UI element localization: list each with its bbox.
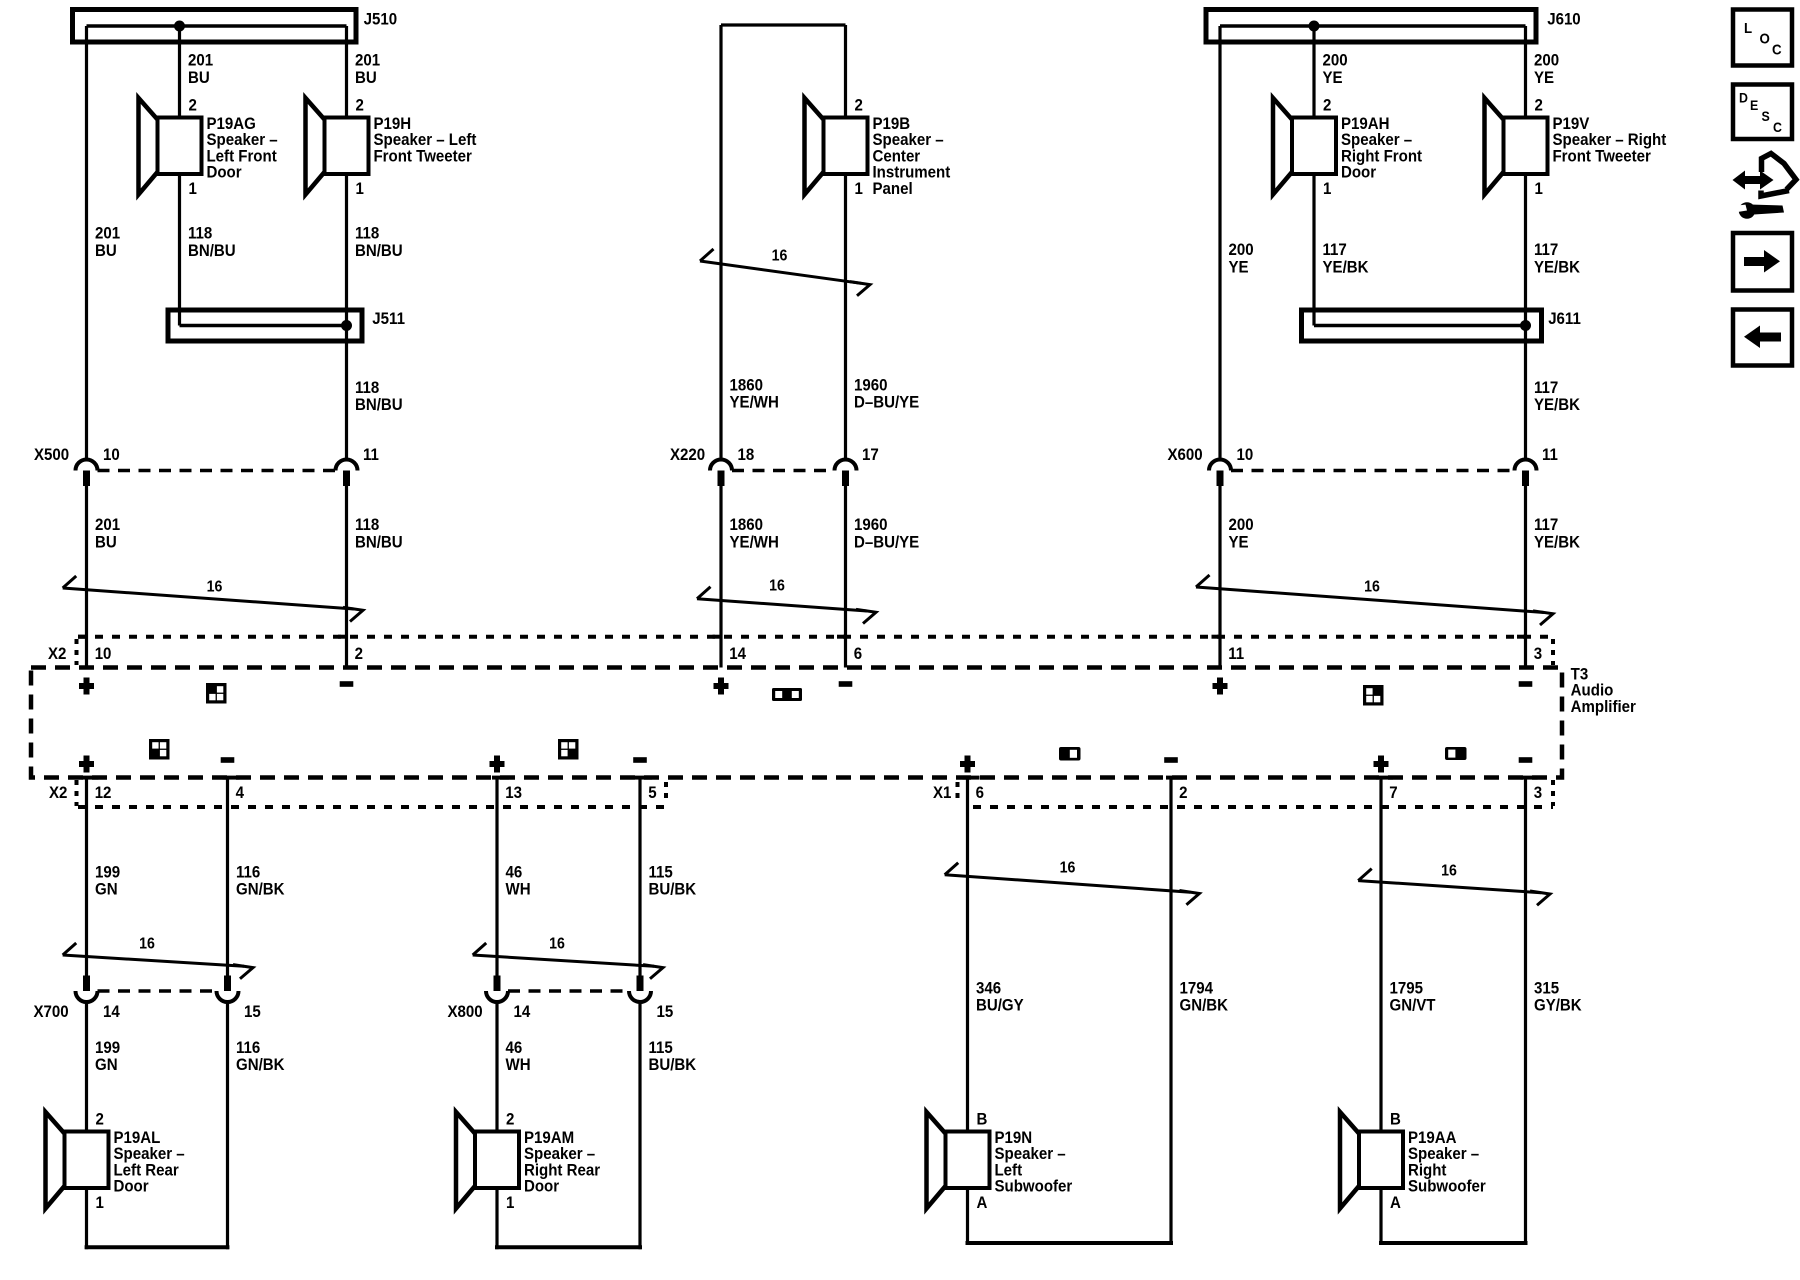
wire 115 BU/BK (amp X2 pin 5 to X800 pin 15)	[638, 778, 641, 976]
plus sign amp bottom pin 7	[1374, 756, 1389, 773]
svg-text:YE/WH: YE/WH	[730, 393, 779, 412]
speaker P19H symbol	[306, 98, 369, 195]
svg-text:B: B	[976, 1110, 987, 1129]
wire 116 GN/BK (amp X2 pin 4 to X700 pin 15)	[226, 778, 229, 976]
amp X2 pin 13 entry tick	[492, 776, 509, 780]
label X800 pin 14	[514, 1002, 531, 1021]
wire 200 YE (X600 pin 10 to amp X2 pin 11)	[1218, 485, 1221, 668]
svg-text:315: 315	[1534, 979, 1559, 998]
label amp X1 pin 2	[1179, 783, 1187, 802]
label amp X2 pin 10	[95, 644, 112, 663]
svg-text:GN/BK: GN/BK	[236, 880, 285, 899]
label wire value 200 YE right feed	[1228, 240, 1253, 276]
svg-text:2: 2	[1323, 96, 1331, 115]
svg-text:11: 11	[363, 445, 379, 464]
svg-text:1: 1	[95, 1193, 103, 1212]
svg-text:Subwoofer: Subwoofer	[1408, 1177, 1486, 1196]
label P19AL name	[113, 1128, 184, 1196]
gauge marker left rear pair	[63, 943, 253, 979]
svg-text:16: 16	[549, 935, 565, 953]
svg-text:18: 18	[737, 445, 754, 464]
svg-text:D–BU/YE: D–BU/YE	[854, 393, 920, 412]
pin B label of P19AA	[1390, 1110, 1401, 1129]
svg-text:201: 201	[188, 51, 213, 70]
wire 117 YE/BK (P19V pin 1 through J611 to X600 pin 11)	[1524, 174, 1527, 461]
wire 346 BU/GY (amp X1 pin 6 to P19N pin B)	[966, 778, 969, 1132]
wire J611 bus	[1314, 324, 1526, 328]
amp X2 pin 10 entry tick	[78, 635, 87, 639]
gauge marker center pair lower	[697, 587, 876, 624]
label X500 pin 11	[363, 445, 379, 464]
label P19B name	[872, 114, 950, 198]
svg-text:BN/BU: BN/BU	[355, 533, 403, 552]
label amp X2 pin 6	[854, 644, 862, 663]
svg-text:117: 117	[1534, 515, 1558, 534]
label amp X2 pin 13	[505, 783, 522, 802]
connector X600 pin 10 terminal	[1209, 460, 1231, 487]
connector X1 right separator	[1551, 780, 1555, 806]
label 16 gauge right rear pair	[549, 935, 565, 953]
svg-text:118: 118	[355, 224, 379, 243]
pin 1 label of P19AM	[506, 1193, 514, 1212]
svg-text:15: 15	[657, 1002, 674, 1021]
connector X1 left separator	[956, 782, 960, 804]
speaker P19AG symbol	[139, 98, 202, 195]
pin 2 label of P19AL	[95, 1110, 103, 1129]
plus sign amp bottom pin 13	[490, 756, 505, 773]
label P19H name	[373, 114, 477, 165]
label X800	[447, 1002, 482, 1021]
svg-text:A: A	[976, 1193, 987, 1212]
svg-text:O: O	[1760, 31, 1770, 48]
svg-text:115: 115	[648, 863, 672, 882]
svg-text:1795: 1795	[1389, 979, 1423, 998]
svg-text:15: 15	[244, 1002, 261, 1021]
label X600	[1168, 445, 1203, 464]
gauge marker center pair upper	[700, 249, 870, 296]
plus sign amp top pin 10	[79, 678, 94, 695]
label wire value 116 GN/BK below amp	[236, 863, 285, 899]
label 16 gauge front left pair	[207, 578, 223, 596]
label wire value 46 WH at speaker	[505, 1038, 530, 1074]
svg-text:3: 3	[1534, 783, 1542, 802]
svg-text:4: 4	[236, 783, 244, 802]
svg-text:BU/BK: BU/BK	[648, 1055, 696, 1074]
minus sign amp bottom pin 3	[1519, 757, 1533, 763]
svg-text:YE: YE	[1534, 68, 1554, 87]
wire 1860 YE/WH (X220 pin 18 to amp X2 pin 14)	[719, 485, 722, 668]
svg-text:116: 116	[236, 863, 260, 882]
wire P19AM pin 1 return	[495, 1188, 642, 1249]
svg-text:201: 201	[355, 51, 380, 70]
svg-text:WH: WH	[505, 880, 530, 899]
svg-text:1: 1	[506, 1193, 514, 1212]
svg-text:12: 12	[95, 783, 112, 802]
svg-text:13: 13	[505, 783, 522, 802]
label X220 pin 17	[862, 445, 879, 464]
connector X220 pin 18 terminal	[710, 460, 732, 487]
svg-text:BN/BU: BN/BU	[355, 395, 403, 414]
connector X700 pin 15 terminal	[217, 976, 239, 1003]
label X220	[670, 445, 705, 464]
label wire value 1860 YE/WH above X220	[730, 376, 779, 412]
pin 2 label of P19B	[854, 96, 862, 115]
svg-text:46: 46	[505, 1038, 522, 1057]
svg-text:16: 16	[1060, 859, 1076, 877]
svg-text:1: 1	[188, 179, 196, 198]
label amp X1 pin 3	[1534, 783, 1542, 802]
svg-text:46: 46	[505, 863, 522, 882]
svg-text:BU/GY: BU/GY	[976, 996, 1024, 1015]
label wire value 200 YE at P19AH branch	[1323, 51, 1348, 87]
svg-text:16: 16	[139, 935, 155, 953]
svg-text:S: S	[1761, 108, 1769, 124]
wire J610 bus	[1220, 24, 1526, 28]
svg-text:115: 115	[648, 1038, 672, 1057]
plus sign amp top pin 11	[1213, 678, 1228, 695]
svg-text:D: D	[1739, 90, 1748, 106]
label wire value 117 YE/BK above amp	[1534, 515, 1580, 551]
wire 46 WH (amp X2 pin 13 to X800 pin 14)	[495, 778, 498, 976]
minus sign amp top pin 2	[340, 681, 354, 687]
amp X2 pin 5 entry tick	[635, 776, 652, 780]
amp X2 pin 11 entry tick	[1212, 635, 1221, 639]
label J611	[1548, 309, 1581, 328]
label wire value 201 BU left feed	[95, 224, 120, 260]
pin A label of P19AA	[1390, 1193, 1401, 1212]
svg-text:Front Tweeter: Front Tweeter	[1553, 147, 1651, 166]
wire 118 BN/BU (P19H pin 1 through J511 to X500 pin 11)	[345, 174, 348, 461]
svg-text:X1: X1	[933, 783, 951, 802]
svg-text:YE: YE	[1323, 68, 1343, 87]
svg-text:WH: WH	[505, 1055, 530, 1074]
label wire value 199 GN below amp	[95, 863, 120, 899]
svg-text:117: 117	[1534, 378, 1558, 397]
amplifier T3 body outline	[31, 668, 1562, 778]
connector X2 top strip right separator	[1551, 639, 1555, 665]
svg-text:2: 2	[356, 96, 364, 115]
wire P19AA pin A return	[1379, 1188, 1528, 1245]
amp X2 pin 6 entry tick	[837, 635, 846, 639]
label wire value 117 YE/BK above X600	[1534, 378, 1580, 414]
wire J510 bus	[87, 24, 347, 28]
svg-text:2: 2	[355, 644, 363, 663]
svg-text:346: 346	[976, 979, 1001, 998]
svg-text:1: 1	[1323, 179, 1331, 198]
wire 46 WH (X800 pin 14 to P19AM pin 2)	[495, 1002, 498, 1132]
svg-text:3: 3	[1534, 644, 1542, 663]
amp X1 pin 3 entry tick	[1521, 776, 1538, 780]
connector X800 pin 14 terminal	[486, 976, 508, 1003]
icon left front speaker position	[206, 683, 227, 704]
connector X2 top strip left separator	[75, 639, 79, 665]
connector X2/X1 bottom strip dotted edge X2 part	[78, 805, 666, 809]
pin 2 label of P19H	[356, 96, 364, 115]
junction dot on J610 bus	[1309, 21, 1320, 32]
svg-text:6: 6	[976, 783, 984, 802]
svg-text:BU: BU	[188, 68, 210, 87]
label amp X1 pin 6	[976, 783, 984, 802]
minus sign amp top pin 3	[1519, 681, 1533, 687]
svg-text:2: 2	[506, 1110, 514, 1129]
minus sign amp bottom pin 5	[633, 757, 647, 763]
amp X2 pin 14 entry tick	[713, 635, 722, 639]
icon LOC box	[1733, 10, 1792, 66]
label X600 pin 11	[1542, 445, 1558, 464]
speaker P19AL symbol	[46, 1112, 109, 1209]
label X2 top	[48, 644, 66, 663]
svg-text:YE: YE	[1228, 258, 1248, 277]
label wire value 201 BU at P19AG branch	[188, 51, 213, 87]
svg-text:YE/WH: YE/WH	[730, 533, 779, 552]
svg-text:117: 117	[1323, 240, 1347, 259]
label P19AM name	[524, 1128, 600, 1196]
svg-text:BU: BU	[95, 241, 117, 260]
label 16 gauge left subwoofer pair	[1060, 859, 1076, 877]
svg-text:1: 1	[854, 179, 862, 198]
svg-text:5: 5	[648, 783, 656, 802]
label wire value 1860 YE/WH above amp	[730, 515, 779, 551]
label P19AG name	[207, 114, 278, 182]
label wire value 200 YE at P19V branch	[1534, 51, 1559, 87]
wire 315 GY/BK (amp X1 pin 3 to P19AA loop)	[1524, 778, 1527, 1246]
amp X2 pin 2 entry tick	[338, 635, 347, 639]
junction dot on J510 bus	[174, 21, 185, 32]
label 16 gauge front right pair	[1364, 578, 1380, 596]
label wire value 201 BU above amp	[95, 515, 120, 551]
svg-text:14: 14	[103, 1002, 120, 1021]
connector X220 pin 17 terminal	[835, 460, 857, 487]
svg-text:L: L	[1744, 20, 1752, 37]
svg-text:BU: BU	[355, 68, 377, 87]
svg-text:GN/VT: GN/VT	[1389, 996, 1435, 1015]
wire 118 BN/BU (P19AG pin 1 to J511)	[178, 174, 181, 326]
gauge marker front left pair	[63, 576, 363, 622]
pin 2 label of P19AH	[1323, 96, 1331, 115]
svg-text:Subwoofer: Subwoofer	[994, 1177, 1072, 1196]
svg-text:118: 118	[355, 378, 379, 397]
pin A label of P19N	[976, 1193, 987, 1212]
wire 1960 D-BU/YE (P19B pin 1 to X220 pin 17)	[844, 174, 847, 461]
label wire value 118 BN/BU above amp	[355, 515, 403, 551]
wire 200 YE (J610 to P19AH pin 2)	[1312, 26, 1315, 118]
label amp X2 pin 5	[648, 783, 656, 802]
label amp X2 pin 3	[1534, 644, 1542, 663]
svg-text:16: 16	[1441, 862, 1457, 880]
splice J510 box	[73, 10, 357, 43]
svg-text:C: C	[1773, 119, 1782, 135]
icon forward arrow box	[1733, 233, 1792, 291]
svg-text:GN: GN	[95, 880, 118, 899]
plus sign amp bottom pin 12	[79, 756, 94, 773]
svg-text:11: 11	[1542, 445, 1558, 464]
pin 1 label of P19AL	[95, 1193, 103, 1212]
pin 1 label of P19V	[1535, 179, 1543, 198]
label wire value 200 YE above amp	[1228, 515, 1253, 551]
svg-text:16: 16	[207, 578, 223, 596]
connector X2 bottom right separator	[664, 782, 668, 804]
label X1 bottom	[933, 783, 951, 802]
splice J610 box	[1206, 10, 1536, 43]
label P19AH name	[1341, 114, 1423, 182]
connector X600 pin 11 terminal	[1515, 460, 1537, 487]
label J511	[372, 309, 405, 328]
svg-text:118: 118	[188, 224, 212, 243]
pin 1 label of P19B	[854, 179, 862, 198]
icon left subwoofer position	[1059, 747, 1081, 761]
wire 1795 GN/VT (amp X1 pin 7 to P19AA pin B)	[1379, 778, 1382, 1132]
plus sign amp top pin 14	[714, 678, 729, 695]
svg-text:6: 6	[854, 644, 862, 663]
label amp X2 pin 2	[355, 644, 363, 663]
svg-text:200: 200	[1228, 240, 1253, 259]
amp X2 pin 4 entry tick	[223, 776, 240, 780]
junction dot on J511 bus	[341, 320, 352, 331]
minus sign amp bottom pin 4	[221, 757, 235, 763]
svg-text:10: 10	[103, 445, 120, 464]
label X500 pin 10	[103, 445, 120, 464]
label 16 gauge left rear pair	[139, 935, 155, 953]
svg-text:Door: Door	[207, 163, 242, 182]
svg-text:1960: 1960	[854, 376, 888, 395]
wire 118 BN/BU (X500 pin 11 to amp X2 pin 2)	[345, 485, 348, 668]
svg-text:2: 2	[1535, 96, 1543, 115]
label amp X2 pin 14	[729, 644, 746, 663]
wire P19AL pin 1 return	[85, 1188, 230, 1249]
wire 201 BU (J510 to P19H pin 2)	[345, 26, 348, 118]
svg-text:117: 117	[1534, 240, 1558, 259]
svg-text:7: 7	[1389, 783, 1397, 802]
svg-text:X220: X220	[670, 445, 705, 464]
svg-text:J511: J511	[372, 309, 405, 328]
label X800 pin 15	[657, 1002, 674, 1021]
label wire value 1795 GN/VT	[1389, 979, 1435, 1015]
svg-text:GN: GN	[95, 1055, 118, 1074]
label P19N name	[994, 1128, 1072, 1196]
label wire value 117 YE/BK below P19AH	[1323, 240, 1369, 276]
wire 201 BU (X500 pin 10 to amp X2 pin 10)	[85, 485, 88, 668]
minus sign amp bottom pin 2	[1164, 757, 1178, 763]
svg-text:C: C	[1772, 42, 1782, 59]
svg-text:17: 17	[862, 445, 879, 464]
label wire value 118 BN/BU below P19H	[355, 224, 403, 260]
label 16 gauge center pair lower	[769, 577, 785, 595]
svg-text:J610: J610	[1547, 10, 1581, 29]
amp X1 pin 6 entry tick	[963, 776, 980, 780]
wire 200 YE (J610 to P19V pin 2)	[1524, 26, 1527, 118]
svg-text:201: 201	[95, 515, 120, 534]
svg-text:1794: 1794	[1180, 979, 1214, 998]
label X2 bottom	[49, 783, 67, 802]
connector X700 dashed link	[98, 989, 217, 993]
speaker P19V symbol	[1485, 98, 1548, 195]
wire 1794 GN/BK (amp X1 pin 2 to P19N loop)	[1169, 778, 1172, 1246]
label X700	[34, 1002, 69, 1021]
svg-text:Panel: Panel	[872, 179, 912, 198]
svg-text:GN/BK: GN/BK	[236, 1055, 285, 1074]
connector X2 top strip dotted edge	[78, 635, 1553, 639]
pin 2 label of P19AG	[188, 96, 196, 115]
wire 200 YE (J610 to X600 pin 10)	[1218, 26, 1221, 461]
label X220 pin 18	[737, 445, 754, 464]
svg-text:116: 116	[236, 1038, 260, 1057]
svg-text:E: E	[1750, 97, 1758, 113]
connector X700 pin 14 terminal	[76, 976, 98, 1003]
speaker P19AH symbol	[1273, 98, 1336, 195]
svg-text:200: 200	[1228, 515, 1253, 534]
svg-text:1860: 1860	[730, 515, 764, 534]
svg-text:201: 201	[95, 224, 120, 243]
svg-text:2: 2	[188, 96, 196, 115]
svg-text:X700: X700	[34, 1002, 69, 1021]
label wire value 315 GY/BK	[1534, 979, 1582, 1015]
svg-text:GY/BK: GY/BK	[1534, 996, 1582, 1015]
gauge marker right subwoofer pair	[1358, 869, 1550, 906]
svg-text:BN/BU: BN/BU	[355, 241, 403, 260]
junction dot on J611 bus	[1520, 320, 1531, 331]
svg-text:199: 199	[95, 863, 120, 882]
gauge marker left subwoofer pair	[945, 863, 1200, 905]
splice J611 box	[1302, 310, 1542, 341]
connector X800 pin 15 terminal	[629, 976, 651, 1003]
wire 199 GN (amp X2 pin 12 to X700 pin 14)	[85, 778, 88, 976]
connector X800 dashed link	[508, 989, 629, 993]
pin 2 label of P19V	[1535, 96, 1543, 115]
pin 2 label of P19AM	[506, 1110, 514, 1129]
label J510	[364, 10, 398, 29]
svg-text:199: 199	[95, 1038, 120, 1057]
wire P19N pin A return	[966, 1188, 1174, 1245]
svg-text:D–BU/YE: D–BU/YE	[854, 533, 920, 552]
wire 1960 D-BU/YE (loop to P19B pin 2)	[844, 25, 847, 118]
wire 117 YE/BK (X600 pin 11 to amp X2 pin 3)	[1524, 485, 1527, 668]
wire 115 BU/BK (X800 pin 15 to P19AM loop)	[638, 1002, 641, 1250]
svg-text:Door: Door	[113, 1177, 148, 1196]
label wire value 1960 D-BU/YE above X220	[854, 376, 920, 412]
splice J511 box	[168, 310, 362, 341]
svg-text:11: 11	[1228, 644, 1244, 663]
label wire value 201 BU at P19H branch	[355, 51, 380, 87]
icon navigate wiring diagram	[1733, 154, 1797, 219]
label wire value 115 BU/BK at speaker	[648, 1038, 696, 1074]
label T3 Audio Amplifier	[1571, 665, 1636, 716]
icon back arrow box	[1733, 310, 1792, 366]
plus sign amp bottom pin 6	[960, 756, 975, 773]
icon right subwoofer position	[1445, 747, 1467, 760]
label amp X2 pin 12	[95, 783, 112, 802]
svg-text:14: 14	[729, 644, 746, 663]
label P19AA name	[1408, 1128, 1486, 1196]
gauge marker right rear pair	[473, 943, 663, 979]
svg-text:BU: BU	[95, 533, 117, 552]
connector X500 pin 10 terminal	[76, 460, 98, 487]
svg-text:J510: J510	[364, 10, 398, 29]
label wire value 116 GN/BK at speaker	[236, 1038, 285, 1074]
svg-text:X2: X2	[49, 783, 67, 802]
svg-text:X500: X500	[34, 445, 69, 464]
wire 116 GN/BK (X700 pin 15 to P19AL loop)	[226, 1002, 229, 1250]
amp X2 pin 3 entry tick	[1517, 635, 1526, 639]
pin 1 label of P19AG	[188, 179, 196, 198]
wire 1860 YE/WH (loop to X220 pin 18)	[719, 25, 722, 461]
speaker P19B symbol	[805, 98, 868, 195]
amp X1 pin 7 entry tick	[1376, 776, 1393, 780]
wire 199 GN (X700 pin 14 to P19AL pin 2)	[85, 1002, 88, 1132]
svg-text:YE/BK: YE/BK	[1534, 258, 1580, 277]
label amp X2 pin 11	[1228, 644, 1244, 663]
icon center IP speaker position	[772, 688, 802, 701]
label X700 pin 14	[103, 1002, 120, 1021]
